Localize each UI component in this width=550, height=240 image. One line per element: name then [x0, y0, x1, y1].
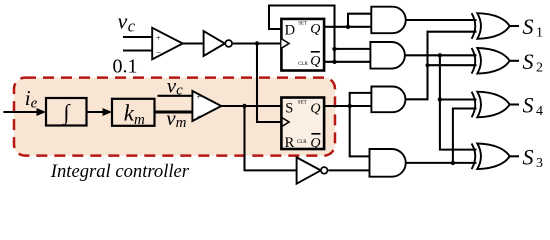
svg-text:Q: Q [310, 101, 320, 116]
svg-text:R: R [285, 135, 295, 151]
svg-text:SET: SET [298, 22, 307, 27]
svg-text:CLR: CLR [298, 62, 308, 67]
svg-text:Q: Q [310, 136, 320, 151]
svg-text:−: − [156, 48, 161, 58]
svg-text:D: D [285, 23, 295, 39]
svg-text:+: + [156, 34, 161, 43]
svg-text:Integral controller: Integral controller [50, 161, 190, 182]
svg-text:Q: Q [310, 54, 320, 69]
svg-text:0.1: 0.1 [113, 56, 138, 78]
svg-text:−: − [197, 111, 202, 121]
svg-text:+: + [197, 93, 202, 102]
svg-text:CLR: CLR [297, 140, 307, 145]
svg-text:Q: Q [310, 22, 320, 37]
svg-text:S: S [285, 101, 293, 117]
svg-text:SET: SET [298, 101, 307, 106]
